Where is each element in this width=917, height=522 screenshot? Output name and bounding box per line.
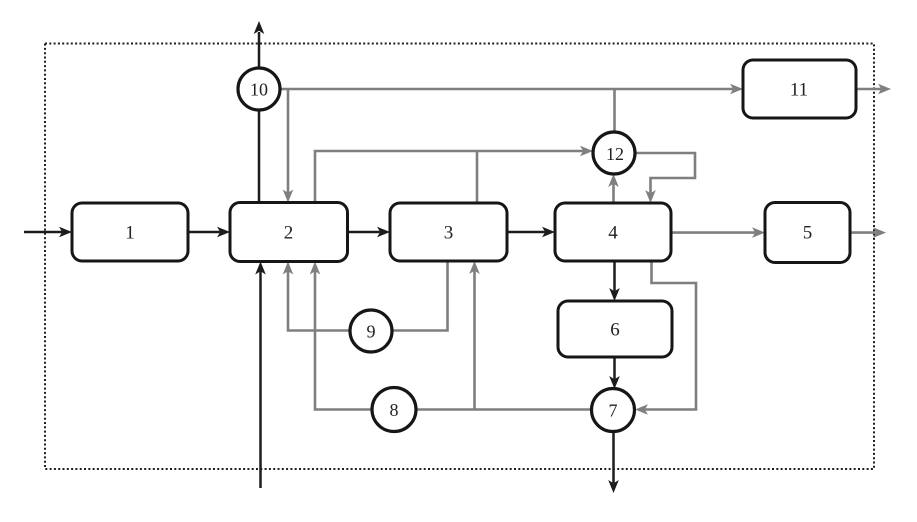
- wire gray 5 output to right boundary: [850, 227, 886, 238]
- wire gray node 8 to node 7 horizontal: [416, 408, 592, 411]
- wire black 2 to 3: [348, 227, 391, 238]
- block 1: [72, 203, 188, 261]
- svg-text:9: 9: [367, 322, 376, 342]
- wire gray 10 to 11 horizontal: [280, 84, 743, 95]
- svg-text:4: 4: [608, 223, 618, 244]
- wire black 6 down to node 7: [609, 357, 620, 389]
- wire black input arrow into block 1: [24, 227, 72, 238]
- node 12: [593, 132, 635, 174]
- svg-text:3: 3: [444, 223, 454, 244]
- wire gray 4 top up into node 12 bottom: [608, 174, 619, 203]
- wire black block 2 top through node 10 up out of boundary: [254, 21, 265, 203]
- node 7: [592, 389, 635, 432]
- svg-text:2: 2: [284, 223, 294, 244]
- svg-text:5: 5: [803, 223, 813, 244]
- wire black 3 to 4: [507, 227, 555, 238]
- wire gray branch up into block 3 bottom: [469, 261, 480, 410]
- svg-text:11: 11: [790, 80, 808, 101]
- wire gray branch from 2-12 line down to block 3 top: [476, 151, 479, 203]
- wire black 1 to 2: [188, 227, 230, 238]
- node 8: [372, 388, 416, 432]
- wire gray 11 output to right boundary: [856, 84, 891, 95]
- svg-text:1: 1: [125, 223, 135, 244]
- block 11: [743, 60, 856, 118]
- node 9: [350, 310, 392, 352]
- wire gray 2 top up and right into node 12: [315, 146, 593, 203]
- wire gray branch 10 down into block 2 top: [283, 89, 294, 203]
- svg-text:7: 7: [609, 401, 618, 421]
- wire black node 7 down out of boundary: [608, 431, 619, 493]
- block 4: [555, 203, 671, 261]
- block 6: [558, 301, 672, 357]
- block 5: [765, 203, 850, 263]
- wire gray node 9 left then up into block 2 bottom: [283, 262, 350, 331]
- wire gray block 3 bottom down and left to node 9: [392, 261, 448, 331]
- wire gray hook node 12 right around into block 4 top: [635, 153, 695, 203]
- wire gray node 8 left then up into block 2 bottom: [310, 262, 372, 410]
- block 3: [390, 203, 507, 261]
- block 2: [230, 203, 348, 262]
- svg-text:10: 10: [250, 80, 268, 100]
- wire black bottom input up into block 2 bottom: [255, 262, 266, 489]
- dashed system boundary frame: [45, 44, 874, 470]
- wire gray branch down to node 12 top: [613, 89, 616, 133]
- svg-text:12: 12: [606, 144, 624, 164]
- wire gray 4 to 5: [671, 227, 765, 238]
- svg-text:8: 8: [390, 400, 399, 420]
- svg-text:6: 6: [610, 320, 620, 341]
- node 10: [238, 68, 280, 110]
- wire gray hook block 4 bottom around into node 7 right: [635, 261, 696, 415]
- wire black 4 down to 6: [609, 261, 620, 301]
